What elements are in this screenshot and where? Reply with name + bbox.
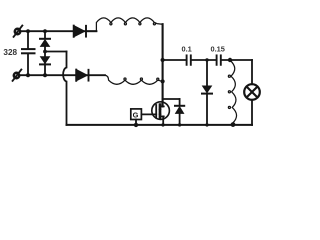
gate drive box G bbox=[131, 109, 156, 125]
capacitor C3 0.15 bbox=[217, 55, 221, 64]
wire bottom rail left bbox=[19, 74, 105, 76]
node choke bottom bbox=[231, 122, 236, 127]
diode D3 (top rail, points right) bbox=[74, 26, 97, 37]
node choke top bbox=[228, 58, 232, 62]
node bottom-diodes bbox=[43, 73, 47, 77]
terminal J2 (bottom input) bbox=[13, 70, 22, 81]
wire capacitor branch bbox=[27, 31, 29, 75]
node rail-winding2 bbox=[161, 79, 165, 83]
lamp LP1 bbox=[244, 60, 260, 125]
wire bottom ground rail bbox=[67, 124, 253, 126]
wire main vertical rail bbox=[162, 24, 164, 106]
diode D1 (points up) bbox=[40, 39, 50, 47]
node rail-output bbox=[161, 58, 165, 62]
node diode5-ground bbox=[205, 123, 208, 126]
wire output top rail bbox=[163, 59, 252, 61]
svg-text:0.15: 0.15 bbox=[211, 45, 225, 54]
node top-diodes bbox=[43, 29, 47, 33]
node diode tap bbox=[43, 50, 47, 54]
diode D5 (output, points down) bbox=[202, 60, 212, 125]
node gate-ground bbox=[134, 123, 138, 127]
diode D2 (points down) bbox=[40, 57, 50, 65]
diode D6 (body diode, points up) bbox=[175, 99, 184, 125]
transistor Q1 (MOSFET in circle) bbox=[152, 102, 170, 125]
capacitor C1 328 bbox=[22, 49, 35, 53]
node diode5 top bbox=[205, 58, 208, 61]
capacitor C2 0.1 bbox=[187, 55, 191, 64]
wire diode branch bbox=[44, 31, 46, 75]
inductor L3 (output choke) bbox=[228, 61, 236, 125]
wire top rail bbox=[20, 30, 96, 32]
wire tap to hop bbox=[45, 51, 67, 53]
svg-text:328: 328 bbox=[3, 48, 17, 57]
node source-ground bbox=[161, 123, 164, 126]
svg-text:0.1: 0.1 bbox=[182, 45, 192, 54]
terminal J1 (top input) bbox=[14, 26, 23, 37]
wire hop over bottom rail bbox=[63, 52, 66, 125]
inductor L2 (bottom winding) bbox=[105, 75, 162, 84]
node top-cap bbox=[26, 29, 30, 33]
wire snubber top bbox=[163, 98, 180, 100]
svg-text:G: G bbox=[133, 110, 139, 119]
diode D4 (bottom rail, points right) bbox=[76, 70, 88, 81]
inductor L1 (top winding) bbox=[96, 18, 161, 31]
node bottom-cap bbox=[26, 73, 30, 77]
node diode6-ground bbox=[178, 123, 181, 126]
